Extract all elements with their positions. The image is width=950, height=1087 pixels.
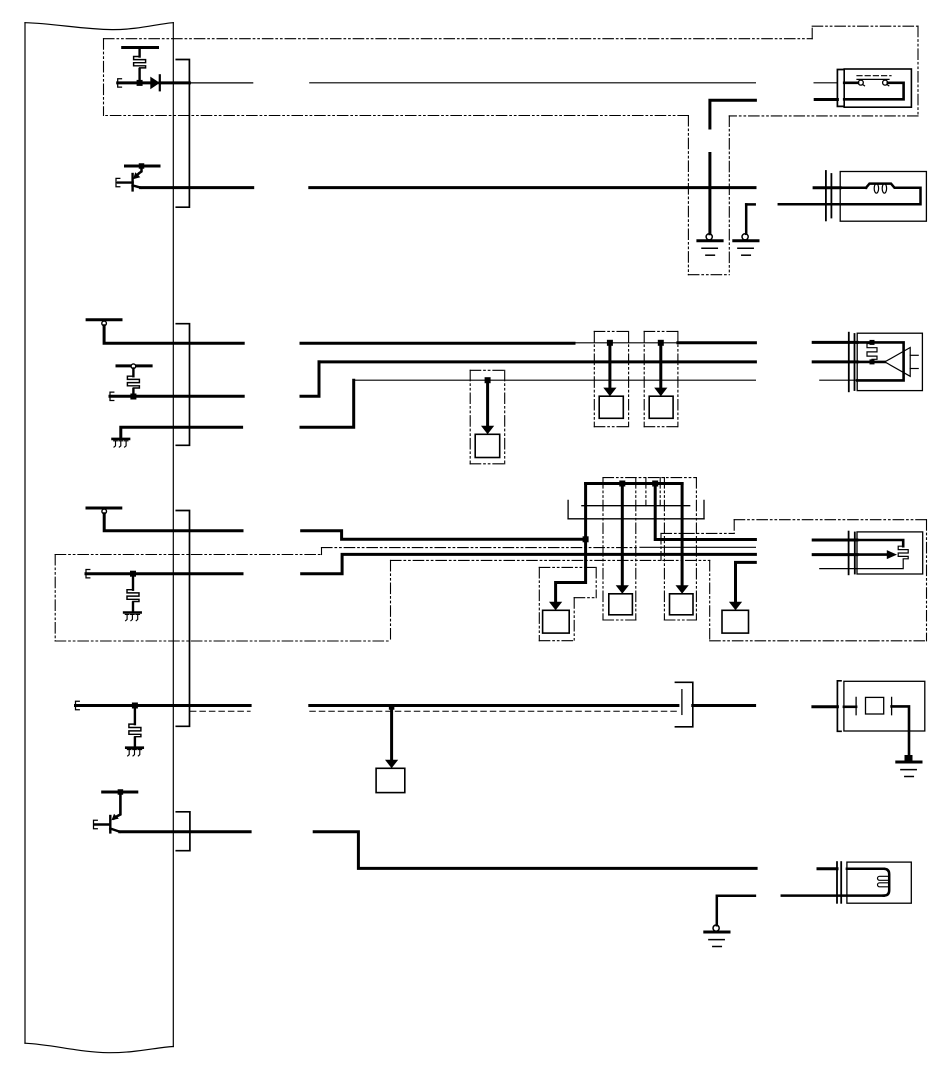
connector boundary cluster top: [603, 477, 696, 479]
joint connector square c: [475, 434, 500, 457]
wire pin1 anode: [118, 81, 151, 84]
resistor R4: [134, 707, 136, 724]
node R4/W8 junction: [132, 703, 138, 709]
joint connector arrow a: [608, 345, 611, 389]
joint connector square a: [599, 396, 623, 418]
connector boundary box a: [594, 330, 628, 332]
wire W8: [76, 704, 251, 707]
node W6/V1 junction: [583, 536, 589, 542]
wire V2 to joint B: [621, 484, 624, 586]
resistor R3: [132, 576, 134, 590]
sensor SE1 feed wires: [813, 539, 857, 542]
diode D1: [150, 77, 160, 90]
pin tick pin7: [86, 570, 90, 578]
wire W1 to switch (thin): [189, 82, 252, 84]
wire W3: [104, 326, 243, 344]
joint connector arrow b: [659, 345, 662, 389]
node bus/V2: [619, 481, 625, 487]
sensor SE1 element: [857, 540, 903, 546]
wire W6: [104, 514, 242, 531]
sensor SE1 housing: [857, 532, 923, 574]
chassis ground S4: [126, 746, 143, 749]
connector boundary box c: [470, 369, 505, 371]
joint connector arrow c: [486, 382, 489, 427]
node R3/W7 junction: [130, 571, 136, 577]
joint connector arrow d: [390, 708, 393, 761]
sensor SE1 connector: [848, 532, 850, 575]
node J/C tap a: [607, 340, 613, 346]
connector boundary box b: [644, 330, 678, 332]
harness pocket around G1: [687, 116, 689, 275]
resistor R internal BZ1: [870, 340, 875, 345]
pin tick pin1: [118, 79, 122, 87]
coil L1 winding: [847, 867, 884, 870]
connector boundary around joint A: [539, 566, 596, 568]
transistor Q1 collector rail bar: [126, 165, 160, 168]
power symbol S2 pin4 pullup bar: [117, 364, 151, 367]
wire SW1 internal: [844, 82, 858, 85]
resistor R2: [132, 369, 134, 377]
joint connector square E: [722, 610, 749, 633]
wire W2 to horn: [141, 186, 253, 189]
switch SW1 gang dashed link: [857, 75, 891, 77]
wire thin mid: [640, 546, 755, 548]
resistor R1: [138, 49, 140, 57]
power rail bar S1: [123, 46, 158, 49]
wire Q1 collector out: [133, 185, 141, 187]
node Q1 emitter junction: [139, 163, 145, 169]
sensor SE1 wiper arrow: [857, 553, 887, 556]
transistor Q1: [137, 166, 142, 176]
node R1/D1 junction: [137, 80, 143, 86]
ground G2: [742, 234, 748, 240]
wire Q2 collector out: [110, 829, 120, 832]
wire W7: [86, 572, 242, 575]
switch SW1 contact b: [883, 80, 888, 85]
joint connector square D: [376, 768, 405, 792]
wire L1 return to ground: [717, 896, 755, 926]
pin tick pin8: [76, 701, 80, 709]
horn HO1 coil: [840, 187, 866, 190]
wire SW1 return lower: [815, 98, 837, 101]
shield dashed line W8: [190, 710, 250, 712]
connector boundary V3 stubs: [645, 478, 647, 506]
wire W5 pin5: [121, 427, 242, 437]
component CN1 bracket: [837, 681, 841, 732]
joint connector square A: [543, 610, 570, 633]
power symbol S2 pin3: [87, 318, 121, 321]
connector boundary box B: [602, 478, 604, 620]
ground G1: [706, 234, 712, 240]
transistor Q2: [114, 792, 120, 818]
connector bracket C4 pin 10: [176, 812, 190, 851]
buzzer BZ1 internal wiring: [857, 342, 903, 380]
buzzer BZ1 connector: [848, 333, 850, 392]
switch SW1 housing: [844, 69, 911, 107]
coil component L1 housing: [847, 862, 911, 903]
wire V3 feed right: [655, 484, 755, 540]
ground G4: [713, 925, 719, 931]
buzzer BZ1 element triangle: [885, 348, 910, 377]
connector bracket C2 pins 3-5: [176, 324, 189, 446]
inline connector S4: [675, 682, 692, 727]
wire W4: [110, 395, 243, 398]
harness boundary S3 left box: [55, 554, 321, 556]
switch SW1 contact a: [858, 80, 863, 85]
wire D1 to connector: [160, 81, 190, 84]
component CN1 housing: [844, 681, 925, 731]
horn HO1 connector: [825, 171, 827, 220]
connector boundary box C: [663, 478, 665, 620]
pin tick Q1 base: [116, 178, 120, 186]
ground G3: [905, 755, 913, 761]
connector bracket C3 pins 6-9: [176, 511, 189, 727]
joint connector square C: [670, 594, 694, 615]
wire W8 after connector: [693, 704, 755, 707]
wire W9: [120, 830, 250, 833]
inline connector strip: [582, 505, 690, 507]
wire horn return ground jog: [746, 203, 755, 206]
component CN1 internal element: [844, 705, 856, 708]
connector bracket C1 pins 1-2: [176, 60, 189, 208]
buzzer BZ1 feed: [857, 361, 885, 364]
pin tick Q2 base: [94, 820, 98, 828]
ECU control module body: [25, 23, 173, 30]
node J/C tap b: [658, 340, 664, 346]
harness boundary S3 right region: [390, 560, 392, 641]
wire V4 to joint C: [681, 484, 684, 586]
node W8 tap d: [389, 704, 395, 710]
switch SW1 connector bracket: [837, 70, 843, 107]
pin tick pin4: [110, 392, 114, 400]
wire V1 to joint A: [556, 484, 586, 603]
chassis ground S3: [124, 611, 140, 614]
node bus/V3: [652, 481, 658, 487]
joint connector square b: [649, 396, 673, 418]
power rail bar S5: [103, 791, 137, 794]
node tap c: [485, 377, 491, 383]
node Q2 emitter junction: [118, 789, 124, 795]
bus bar W6 distribution: [586, 482, 683, 485]
wire L1 return: [782, 894, 884, 897]
buzzer BZ1 housing: [857, 333, 922, 390]
horn HO1 housing: [840, 172, 926, 222]
chassis ground S2: [113, 438, 130, 441]
coil component L1 connector: [836, 862, 838, 903]
joint connector square B: [609, 594, 633, 615]
harness boundary S1: [104, 38, 813, 40]
wire to joint E: [736, 562, 756, 602]
wire SW1 return to ground branch: [710, 100, 756, 128]
switch SW1 contact bar: [857, 78, 889, 80]
power symbol S3 pin6: [87, 507, 121, 510]
node R2/W4 junction: [130, 394, 136, 400]
